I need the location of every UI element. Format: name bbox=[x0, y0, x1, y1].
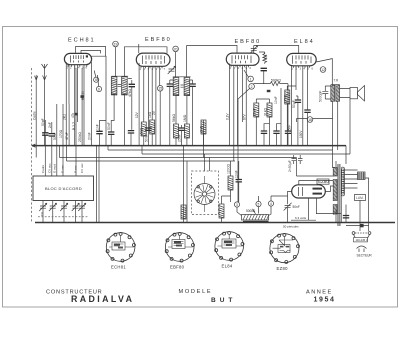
capacitor C2c bbox=[178, 128, 184, 130]
svg-text:25nF: 25nF bbox=[252, 108, 256, 116]
wire det components bbox=[255, 99, 257, 103]
wire TR primary down bbox=[337, 101, 339, 150]
resistor R-pot drop bbox=[219, 204, 224, 218]
wire cg down bbox=[287, 124, 289, 146]
wire B+ rail 4 bbox=[67, 160, 236, 162]
capacitor C-ant2 bbox=[49, 134, 55, 136]
svg-text:50 périodes: 50 périodes bbox=[283, 225, 299, 229]
wire bus stub left1 bbox=[59, 146, 61, 158]
svg-text:1nF: 1nF bbox=[96, 124, 100, 130]
capacitor pad2 bbox=[81, 95, 84, 98]
pin digits V3 bbox=[230, 66, 252, 70]
svg-text:18: 18 bbox=[308, 118, 312, 122]
svg-text:170Ω: 170Ω bbox=[59, 129, 63, 138]
wire r2b down bbox=[151, 134, 153, 146]
svg-text:EL84: EL84 bbox=[294, 39, 315, 45]
wire bp3 bbox=[237, 65, 239, 145]
capacitor C-ez bbox=[284, 203, 292, 211]
wire v69 bbox=[68, 104, 70, 146]
trimmer TB1 bbox=[39, 203, 47, 211]
capacitor C-5000 bbox=[322, 86, 331, 99]
wire pot c up bbox=[259, 196, 288, 201]
pot circle c bbox=[268, 201, 273, 206]
capacitor C-scr bbox=[304, 110, 310, 112]
wire gang top bbox=[204, 154, 206, 171]
pin circle 19 bbox=[113, 41, 119, 47]
core bbox=[338, 164, 340, 226]
capacitor C2a bbox=[145, 128, 151, 130]
svg-text:1: 1 bbox=[250, 77, 252, 81]
wire bus stub b bbox=[141, 146, 143, 154]
resistor R-d2 bbox=[267, 103, 272, 117]
pin circle 12 bbox=[320, 67, 326, 73]
wire c-an down bbox=[99, 134, 101, 146]
pin circle 1 bbox=[248, 76, 254, 82]
wire v76 bbox=[75, 68, 77, 176]
wire antenna lead bbox=[44, 80, 46, 146]
svg-text:20: 20 bbox=[174, 47, 178, 51]
wire anode branch cap bbox=[100, 121, 107, 132]
svg-text:50pF: 50pF bbox=[41, 118, 45, 126]
wire 500k line bbox=[253, 83, 270, 85]
wire rcath bbox=[287, 86, 296, 146]
svg-text:2nF: 2nF bbox=[200, 126, 204, 132]
capacitor C-cath bbox=[295, 100, 301, 102]
wire ift2 left down bbox=[175, 96, 177, 125]
capacitor pad1 bbox=[74, 113, 77, 116]
wire c2c stub bbox=[181, 125, 183, 146]
svg-text:CV osc: CV osc bbox=[80, 163, 84, 173]
wire speaker gnd bbox=[349, 99, 351, 154]
wire cosc bbox=[238, 161, 240, 202]
svg-text:47k: 47k bbox=[71, 112, 75, 118]
svg-text:170Ω: 170Ω bbox=[283, 94, 287, 103]
wire cscr down bbox=[307, 112, 309, 145]
svg-text:47nF: 47nF bbox=[65, 132, 69, 140]
resistor R-gang bbox=[181, 205, 186, 219]
tube pin stubs V4 bbox=[294, 66, 310, 68]
wire chassis bus bbox=[35, 222, 395, 224]
wire pin6 bbox=[90, 62, 92, 146]
capacitor C-mid bbox=[267, 90, 271, 92]
capacitor C-mains bbox=[360, 224, 364, 227]
trimmer TB5 bbox=[78, 203, 86, 211]
SECTION 4: below chassis: bloc accord, tuning, pot, EZ80, mains transformer bbox=[33, 146, 371, 252]
svg-text:6,3 volts: 6,3 volts bbox=[295, 216, 307, 220]
wire gang cable a bbox=[96, 146, 98, 223]
wire c-ift1 down bbox=[110, 134, 112, 145]
svg-text:2nF: 2nF bbox=[48, 122, 52, 128]
capacitor C-an bbox=[96, 131, 102, 133]
wire bl5 bbox=[81, 201, 83, 223]
svg-text:SECTEUR: SECTEUR bbox=[357, 254, 373, 258]
capacitor C-osc bbox=[236, 180, 242, 182]
svg-text:12: 12 bbox=[321, 68, 325, 72]
wire b pins bbox=[228, 64, 230, 146]
tube pin stubs V2 bbox=[141, 66, 162, 68]
svg-text:CV: CV bbox=[40, 212, 44, 216]
wire el84 screen bbox=[307, 66, 309, 110]
wire IFT1 left down bbox=[111, 95, 114, 132]
wire cd1 bbox=[264, 117, 270, 146]
svg-text:BUT: BUT bbox=[211, 297, 236, 304]
primary loop chain bbox=[340, 168, 342, 222]
trimmer TB3 bbox=[60, 203, 68, 211]
wire cift2L bbox=[170, 80, 173, 146]
resistor R2a bbox=[141, 122, 146, 136]
svg-text:5000pF: 5000pF bbox=[319, 91, 323, 103]
capacitor C-ift1 bbox=[108, 132, 114, 134]
resistor R-cath EL84 bbox=[285, 90, 290, 104]
wire ez b+ up bbox=[296, 158, 298, 177]
wire ift1 sec to V2 grid bbox=[124, 47, 167, 76]
LUM box bbox=[355, 195, 366, 201]
pot circle b bbox=[256, 201, 261, 206]
wire gang cable b bbox=[98, 146, 100, 223]
svg-text:15: 15 bbox=[158, 87, 162, 91]
output transformer TR bbox=[331, 85, 340, 102]
mains plug bbox=[357, 246, 367, 252]
wire after 500k bbox=[287, 84, 289, 124]
wire v45 lower bbox=[44, 135, 46, 176]
wire v51 lower bbox=[51, 136, 53, 176]
wire top link a-b bbox=[187, 46, 238, 78]
svg-text:1954: 1954 bbox=[314, 297, 336, 304]
svg-text:20nF: 20nF bbox=[87, 132, 91, 140]
svg-text:50µF: 50µF bbox=[292, 100, 296, 108]
wire v51 bbox=[51, 122, 53, 134]
svg-text:150Ω: 150Ω bbox=[140, 127, 144, 136]
svg-text:ECH81: ECH81 bbox=[111, 265, 126, 270]
label box EZ80 bbox=[317, 179, 329, 184]
wire rif2 down bbox=[186, 138, 188, 146]
svg-text:CV acc: CV acc bbox=[48, 163, 52, 173]
node leader 2 bbox=[97, 75, 98, 86]
svg-text:47kΩ: 47kΩ bbox=[128, 89, 132, 97]
wire bl3 bbox=[63, 201, 65, 223]
svg-text:500kΩ: 500kΩ bbox=[246, 209, 256, 213]
svg-text:EBF80: EBF80 bbox=[235, 39, 262, 45]
svg-text:10nF: 10nF bbox=[235, 170, 239, 178]
wire gang feed left2 bbox=[186, 161, 188, 223]
svg-text:10nF: 10nF bbox=[274, 96, 278, 104]
wire cift2R bbox=[190, 80, 193, 146]
bus arrow tip bbox=[32, 144, 36, 147]
wire c-ift1b down bbox=[128, 79, 132, 130]
wire grid top bbox=[76, 47, 106, 57]
svg-text:EZ80: EZ80 bbox=[277, 266, 289, 271]
svg-text:500kΩ: 500kΩ bbox=[271, 79, 281, 83]
wire p5 bbox=[155, 66, 157, 145]
resistor R-det bbox=[201, 120, 206, 134]
wire bp5 bbox=[245, 65, 247, 145]
svg-text:56kΩ: 56kΩ bbox=[172, 114, 176, 122]
SECTION LEFT: antenna + ECH81 stage bbox=[32, 41, 168, 222]
wire cez down bbox=[287, 208, 289, 223]
wire EZ80 cath left bbox=[288, 191, 292, 204]
wire pin5 bbox=[83, 65, 85, 146]
trimmer T2 bbox=[168, 66, 176, 74]
EZ80 anode wires bbox=[297, 176, 334, 185]
SECTION 2: EBF80a stage bbox=[139, 44, 237, 158]
socket EZ80 bbox=[270, 233, 300, 263]
wire v82 bbox=[81, 68, 83, 146]
wire TR left down bbox=[332, 101, 334, 150]
resistor R-osc bbox=[228, 176, 233, 190]
svg-text:2×50µF: 2×50µF bbox=[288, 160, 292, 172]
svg-text:31kΩ: 31kΩ bbox=[264, 108, 268, 116]
pin circle 20 bbox=[173, 46, 179, 52]
IF transformer 2 bbox=[173, 77, 191, 96]
wire v2a pins bbox=[138, 63, 140, 146]
svg-text:12V: 12V bbox=[135, 111, 139, 118]
wire rdet down bbox=[203, 134, 205, 158]
svg-text:50nF: 50nF bbox=[107, 122, 111, 130]
pin digits V4 bbox=[292, 67, 314, 71]
capacitor C-b bbox=[261, 68, 267, 70]
pin circle 6 bbox=[94, 77, 99, 82]
wire cb down bbox=[259, 52, 265, 84]
transformer taps bbox=[345, 170, 358, 188]
svg-text:Cadre: Cadre bbox=[32, 111, 36, 120]
tiny value labels (rotated) bbox=[40, 54, 372, 257]
SECTION 3: EBF80b + EL84 + output bbox=[229, 46, 364, 203]
arrow left bbox=[35, 76, 38, 80]
trimmer TB4 bbox=[72, 203, 80, 211]
wire rail drop to secondary bbox=[333, 150, 336, 168]
svg-text:G mod: G mod bbox=[53, 164, 57, 173]
svg-text:9: 9 bbox=[98, 87, 100, 91]
tube V2 EBF80 bbox=[136, 53, 170, 66]
svg-text:B 250: B 250 bbox=[81, 91, 85, 100]
wire top link b-el84 bbox=[254, 46, 299, 54]
zigzag R500k bbox=[270, 82, 288, 86]
wire dashed gang link bbox=[38, 216, 88, 218]
wire rpot bbox=[222, 196, 231, 223]
wire p4 bbox=[151, 66, 153, 120]
tuning gang rotor bbox=[194, 176, 215, 212]
svg-text:BLOC D'ACCORD: BLOC D'ACCORD bbox=[45, 186, 82, 191]
SECTION 5: tube sockets bottom bbox=[106, 231, 299, 263]
wire lum down bbox=[360, 178, 369, 231]
tube V5 EZ80 bbox=[292, 185, 326, 198]
volume potentiometer bbox=[237, 206, 271, 222]
svg-text:LUM.: LUM. bbox=[356, 196, 364, 200]
SECTION EXTRA: wires + density bbox=[60, 65, 311, 223]
svg-text:50nF: 50nF bbox=[53, 132, 57, 140]
pin digits V1 bbox=[67, 66, 88, 70]
speaker bbox=[350, 86, 365, 102]
wire bl4 bbox=[75, 201, 77, 223]
wire diag det bbox=[238, 89, 250, 203]
wire rif down bbox=[175, 138, 177, 146]
wire grid bridge bbox=[81, 51, 101, 54]
wire circ20 down bbox=[175, 52, 177, 78]
wire pin3 bbox=[74, 65, 76, 146]
svg-text:25nF: 25nF bbox=[178, 134, 182, 142]
svg-text:ECH81: ECH81 bbox=[68, 38, 96, 44]
wire anode right bbox=[92, 56, 106, 145]
trimmer TB2 bbox=[49, 203, 57, 211]
wire transformer sec bottom bbox=[345, 205, 347, 223]
wire v2a top left bbox=[138, 44, 140, 53]
svg-text:50nF: 50nF bbox=[144, 134, 148, 142]
resistor R2b bbox=[150, 120, 155, 134]
resistor R-if2 bbox=[184, 124, 189, 138]
capacitor C-hum bbox=[343, 216, 349, 218]
resistor R-if56k bbox=[174, 124, 179, 138]
trimmer grid bbox=[250, 46, 258, 54]
svg-text:T.R: T.R bbox=[334, 79, 339, 83]
wire bp2 bbox=[233, 65, 235, 161]
wire rd1 down bbox=[255, 117, 257, 146]
wire anode diag bbox=[316, 59, 332, 86]
svg-text:2kΩ: 2kΩ bbox=[63, 114, 67, 120]
wire B+ rail 1 bbox=[108, 149, 333, 151]
svg-text:25nF: 25nF bbox=[287, 125, 291, 132]
svg-text:EL84: EL84 bbox=[222, 264, 233, 269]
svg-text:6: 6 bbox=[95, 78, 97, 82]
svg-text:110-245 V: 110-245 V bbox=[356, 238, 368, 242]
svg-text:1MΩ: 1MΩ bbox=[183, 114, 187, 122]
svg-text:0,1V: 0,1V bbox=[226, 113, 230, 120]
wire bus stub left2 bbox=[66, 146, 68, 161]
tube V4 EL84 bbox=[287, 53, 317, 65]
wire gang top b bbox=[209, 158, 211, 172]
wire bp4 bbox=[242, 65, 244, 122]
svg-text:G osc: G osc bbox=[61, 165, 65, 173]
svg-text:MODELE: MODELE bbox=[179, 289, 213, 295]
wire p2 bbox=[143, 66, 145, 122]
socket EBF80 bbox=[165, 232, 194, 262]
resistor R-d1 bbox=[254, 103, 259, 117]
wire pin4 bbox=[77, 65, 79, 122]
socket EL84 bbox=[215, 231, 244, 261]
svg-text:190V: 190V bbox=[299, 130, 303, 138]
pin digits V2 bbox=[140, 67, 166, 71]
svg-text:EZ80: EZ80 bbox=[318, 179, 329, 184]
svg-text:5: 5 bbox=[258, 202, 260, 206]
wire rosc bbox=[230, 161, 232, 202]
svg-text:P osc: P osc bbox=[74, 165, 78, 173]
capacitor C-g el84 bbox=[285, 131, 291, 133]
MAIN_INK bbox=[32, 144, 395, 223]
svg-text:47k: 47k bbox=[264, 54, 268, 60]
svg-text:B 2,7: B 2,7 bbox=[72, 122, 76, 130]
svg-text:EBF80: EBF80 bbox=[145, 37, 172, 43]
capacitor C-ift2L bbox=[167, 84, 173, 86]
capacitor C-d3 bbox=[273, 131, 279, 133]
pin circle 18 bbox=[307, 117, 313, 123]
tube pin stubs V3 bbox=[231, 65, 249, 67]
EZ80 heater wires bbox=[291, 186, 341, 220]
tap connector block bbox=[358, 172, 366, 180]
wire r2a down bbox=[143, 136, 145, 146]
wire IFT1 right down bbox=[123, 95, 125, 146]
tuning gang dashed box bbox=[192, 171, 219, 215]
svg-text:50nF: 50nF bbox=[293, 205, 300, 209]
wire dial dashed vertical bbox=[31, 68, 33, 222]
wire main HT bus bbox=[32, 145, 346, 147]
wire HT screen bbox=[297, 119, 333, 123]
pin circle 15 bbox=[157, 86, 163, 92]
wire el2 bbox=[295, 66, 297, 90]
mains transformer TA bbox=[333, 146, 346, 226]
svg-text:ANNEE: ANNEE bbox=[306, 290, 333, 296]
wire ccath down bbox=[296, 96, 298, 146]
wire osc grid bbox=[56, 104, 58, 176]
secondary windings bbox=[333, 168, 337, 215]
svg-text:Cadre: Cadre bbox=[41, 164, 45, 173]
capacitor C-ift1c bbox=[128, 131, 134, 133]
capacitor C-ant1 bbox=[42, 133, 48, 135]
svg-text:EBF80: EBF80 bbox=[170, 265, 185, 270]
svg-text:250kΩ: 250kΩ bbox=[78, 132, 82, 142]
BLOC D'ACCORD box bbox=[33, 176, 94, 201]
capacitor C-d1 bbox=[261, 131, 267, 133]
wire p3 bbox=[147, 66, 149, 145]
pin circle 2 bbox=[249, 84, 255, 90]
wire left vertical bbox=[35, 75, 37, 158]
wire mains filter bbox=[346, 225, 369, 227]
filter cap pair bbox=[292, 155, 303, 164]
node leader 1 bbox=[94, 71, 96, 78]
TUBES bbox=[64, 53, 329, 198]
svg-text:67V: 67V bbox=[242, 113, 246, 120]
wire v45 bbox=[44, 120, 46, 133]
IF transformer 1 bbox=[111, 76, 128, 95]
antenna bbox=[42, 64, 48, 80]
wire p6 bbox=[159, 66, 161, 85]
wire B+ rail 3 bbox=[60, 157, 297, 159]
wire ift2 right down bbox=[186, 96, 188, 125]
wire EL84 pins bbox=[290, 66, 292, 146]
wire osc cath bbox=[62, 104, 64, 176]
mains switch bbox=[352, 232, 371, 242]
svg-text:2: 2 bbox=[251, 85, 253, 89]
wire el3 bbox=[302, 66, 304, 146]
wire pin1 bbox=[65, 62, 67, 146]
wire rd2 bbox=[256, 99, 269, 103]
svg-text:3: 3 bbox=[236, 203, 238, 207]
capacitor C-ift2R bbox=[189, 84, 195, 86]
wire c-ift1c down bbox=[130, 133, 132, 146]
tube pin stubs V1 bbox=[68, 65, 87, 67]
svg-text:4: 4 bbox=[270, 202, 272, 206]
zigzag R47k vertical bbox=[263, 53, 267, 64]
tube V1 ECH81 bbox=[64, 53, 91, 64]
wire bus stub a bbox=[107, 146, 109, 150]
wire pin2 bbox=[68, 65, 70, 104]
pot circle a bbox=[234, 202, 239, 207]
wire leader c1 bbox=[244, 70, 249, 78]
wire bl1 bbox=[42, 201, 44, 223]
socket ECH81 bbox=[106, 232, 135, 262]
wire gang feed left bbox=[183, 146, 185, 223]
capacitor C-ift1b bbox=[129, 84, 135, 86]
wire B+ rail 2 bbox=[142, 153, 350, 155]
svg-text:19: 19 bbox=[114, 42, 118, 46]
wire bl2 bbox=[52, 201, 54, 223]
pin circle 9 bbox=[96, 86, 101, 91]
wire cd3 bbox=[277, 88, 282, 146]
wire circ19 down bbox=[115, 47, 117, 77]
svg-text:1200Ω: 1200Ω bbox=[227, 163, 231, 174]
tube V3 EBF80 bbox=[226, 53, 259, 65]
wire v203 bbox=[203, 120, 205, 146]
wire p6b bbox=[159, 91, 161, 146]
wire TR sec to speaker bbox=[340, 89, 350, 98]
